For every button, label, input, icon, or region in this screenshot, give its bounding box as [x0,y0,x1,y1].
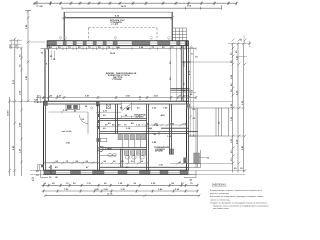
small dims near left wall top [50,51,52,61]
dark block right wall [184,158,187,163]
door 2 swing [122,104,132,111]
terrace horizontals [189,163,201,165]
upper wall band with windows [41,36,199,58]
svg-text:нас.+0.00: нас.+0.00 [62,131,73,133]
fixtures cluster row1 [118,135,146,140]
upper wall stub y=128.2 with door gap [148,127,153,129]
wc partition wall [120,149,122,168]
corridor cross walls [182,61,191,63]
left corner step [40,170,42,177]
chain D [45,195,201,197]
corner junction piers [44,101,48,105]
svg-text:привръзка точно с указанията и: привръзка точно с указанията и специфика… [213,204,269,207]
svg-text:Височините на всички врати и п: Височините на всички врати и прозорци се… [210,196,263,198]
interior cross wall y=148.5 [100,147,147,149]
wall extension to terrace [189,131,198,133]
room dim line y=111.5 [49,111,89,113]
vertical dim line B x=14.8 [14,39,16,177]
right corner step [189,173,197,175]
door 2 opening [121,104,131,106]
horizontal connector extensions [28,41,45,43]
wall stub below hatch [169,134,171,155]
chain 2.17 [96,111,121,113]
top-right dim cluster [228,35,251,57]
interior rooms [44,101,189,170]
bottom band [32,164,197,183]
vertical dim line E x=233 [232,44,234,173]
right wall pier [187,104,190,107]
axis circle near partition [91,107,93,109]
interior vertical wall x=98.5 [97,104,99,170]
top dimension chain [33,1,238,8]
band outline [47,40,188,42]
chain B [42,184,198,186]
vertical dim line D x=28 [27,11,29,101]
interior vertical wall x=116.5 [115,104,117,134]
annex box [189,108,229,168]
legend [210,184,269,210]
upper wing outline [62,12,174,41]
svg-text:АРХИВ: АРХИВ [155,150,163,153]
arrow + label 25 [199,157,206,159]
right inner wall lower [169,104,171,134]
sinks [108,154,113,157]
stairs [172,28,186,41]
window mid frames [56,171,180,173]
upper bracket line 1470 [62,5,222,10]
corner pier dark mark [50,165,52,174]
narrow hatched block [170,149,174,154]
svg-text:Всички размери в чертежа - хор: Всички размери в чертежа - хоризонтални … [210,190,263,192]
vertical dim line G x=245 [243,44,245,173]
wc fixture oval [98,147,103,152]
svg-text:10.08: 10.08 [110,53,116,55]
svg-text:11.76: 11.76 [107,194,113,196]
toilets [125,156,129,159]
room chain 2 [96,126,148,128]
svg-text:С 1 ЕТ.: С 1 ЕТ. [111,24,119,26]
left outer wall upper [44,49,46,102]
legend lines [210,190,269,210]
dim chain under band [41,48,197,50]
svg-text:СЕРВИЗ: СЕРВИЗ [135,117,145,119]
band piers [44,171,189,174]
terrace side walls below annex [195,136,197,168]
pier fill segments [48,41,189,45]
chain C [42,190,198,192]
corridor dim vertical [176,49,178,102]
dark pier on wall [97,138,100,142]
svg-text:10.25: 10.25 [184,61,186,67]
wall pier marks [98,114,100,129]
left outer wall lower [43,101,45,170]
main cross wall y=101-104 [44,100,189,102]
chain 90 door [121,116,134,118]
svg-text:ЗАБЕЛЕЖКА:: ЗАБЕЛЕЖКА: [212,184,227,187]
interior vertical wall x=147.5 [146,104,148,170]
wc chain [100,162,148,164]
small dim cluster top-left 30 70 30 [9,39,22,49]
chain above main cross wall [36,97,196,99]
band outline [44,169,189,171]
svg-text:14.70: 14.70 [121,5,127,8]
dashed inner rect [88,28,157,41]
wc stalls row2 [124,151,146,156]
svg-text:при самия строеж.: при самия строеж. [213,208,230,209]
door arc 1 [80,115,89,124]
right dimension lines [188,35,251,174]
pier box with two dark squares [66,104,80,109]
partition x=88 [87,112,89,134]
wall-edge dim labels x~190 [190,47,192,136]
dim 830 [64,12,172,17]
box with X top [106,104,110,108]
right extension connectors [189,62,246,174]
small cluster left of band bottom [38,96,41,104]
interior cross wall y=132.5 [100,131,189,133]
window mid frames [57,42,185,44]
axis circle in wall [158,132,160,134]
mini chain under corridor [171,91,197,93]
sink counter line [100,154,117,156]
corner entrance detail [38,165,44,171]
svg-text:10.00: 10.00 [8,110,10,116]
ticks on left dim lines [8,10,29,172]
interior cross wall y=119.5 [100,118,147,120]
interior chain above bottom band [44,162,100,164]
right room chain [141,124,189,126]
svg-text:СТРОЕЖ: СТРОЕЖ [112,79,121,81]
svg-text:нивото на готовия под.: нивото на готовия под. [210,199,230,201]
main body walls [36,41,197,171]
ticks on right dim lines [232,39,247,172]
vertical dim line A x=9.5 [9,97,11,176]
axis circle right wall [186,107,188,109]
svg-text:2 ПВП: 2 ПВП [105,148,112,150]
small chain right room [170,163,189,165]
chimney gray block [194,153,200,163]
right outer wall x=187.5 [186,41,188,171]
inner wall line bottom rooms [100,166,189,168]
svg-text:Отворите за прозорците на манс: Отворите за прозорците на мансардния ета… [210,202,267,204]
small box above oval [100,138,106,141]
left dimension lines [8,10,47,177]
window axis symbols [59,36,170,40]
right inner wall upper: light line + wall pair [170,46,172,102]
stall dividers [123,140,141,163]
vertical dim line C x=21.5 [21,48,23,176]
vertical dim line F x=239 [237,44,239,173]
svg-text:дадени в сантиметри.: дадени в сантиметри. [210,193,230,195]
bottom chains [42,183,201,197]
